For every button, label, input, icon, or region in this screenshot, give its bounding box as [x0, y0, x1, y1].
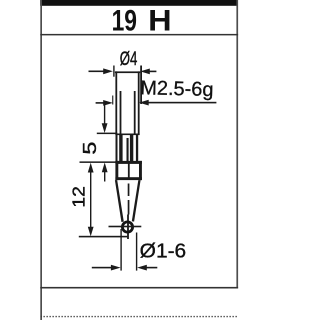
svg-text:Ø4: Ø4	[120, 48, 138, 70]
svg-text:5: 5	[80, 142, 100, 155]
svg-text:M2.5-6g: M2.5-6g	[140, 77, 214, 101]
svg-text:19: 19	[112, 5, 137, 38]
svg-text:H: H	[148, 5, 172, 38]
svg-text:Ø1-6: Ø1-6	[140, 240, 187, 262]
svg-text:12: 12	[69, 186, 89, 208]
